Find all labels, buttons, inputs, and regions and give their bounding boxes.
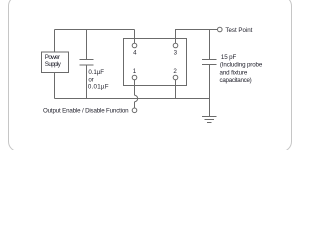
svg-text:0.01µF: 0.01µF	[88, 84, 109, 91]
svg-text:4: 4	[133, 49, 137, 56]
svg-text:2: 2	[173, 68, 177, 75]
svg-text:15 pF: 15 pF	[221, 54, 237, 61]
svg-text:capacitance): capacitance)	[220, 77, 252, 84]
svg-text:or: or	[88, 77, 93, 84]
svg-text:Output Enable / Disable Functi: Output Enable / Disable Function	[43, 108, 129, 115]
svg-text:Supply: Supply	[45, 61, 62, 68]
svg-text:1: 1	[133, 68, 137, 75]
svg-text:3: 3	[174, 49, 178, 56]
svg-text:Test Point: Test Point	[225, 27, 252, 34]
svg-text:and fixture: and fixture	[220, 70, 248, 77]
svg-text:0.1µF: 0.1µF	[88, 69, 104, 76]
svg-text:(Including probe: (Including probe	[220, 62, 263, 69]
